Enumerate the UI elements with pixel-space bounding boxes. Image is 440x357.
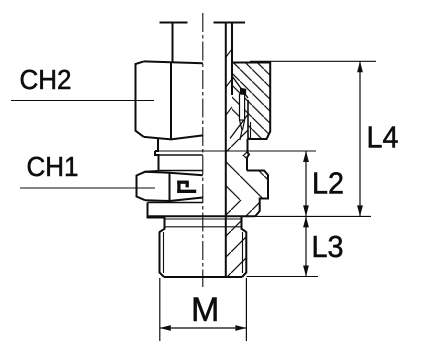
dimension M	[160, 278, 247, 341]
stud left	[160, 232, 165, 278]
tube left wall	[172, 23, 174, 63]
centerline	[202, 13, 204, 287]
tube break cap right	[214, 22, 246, 24]
tube outer wall right	[231, 23, 233, 96]
svg-text:CH1: CH1	[27, 151, 79, 182]
nut CH2 section right half	[232, 63, 270, 140]
L3 bottom extension	[247, 276, 319, 278]
leader CH2	[11, 100, 154, 102]
stud undercut neck right	[242, 217, 247, 233]
hex CH1 left	[137, 171, 203, 201]
neck right	[247, 139, 249, 171]
dimension L2	[303, 151, 344, 216]
svg-text:L4: L4	[367, 120, 399, 155]
tube break cap left	[160, 22, 188, 24]
stud thread root right	[242, 232, 244, 273]
svg-text:M: M	[191, 291, 219, 329]
svg-text:L2: L2	[312, 166, 344, 201]
body section right	[226, 139, 249, 156]
collar bottom / hex CH1 top face	[159, 170, 203, 172]
washer left	[148, 203, 166, 218]
dimension L4	[357, 61, 398, 216]
svg-text:CH2: CH2	[20, 64, 72, 95]
svg-text:L3: L3	[312, 229, 344, 264]
tube wall hatch	[226, 49, 232, 115]
nut cone edge	[232, 76, 248, 98]
stud top face and extension	[148, 215, 256, 217]
body nose cone	[230, 115, 248, 139]
stud right	[242, 232, 246, 278]
lip top line / L2 extension	[155, 150, 316, 152]
neck left	[155, 139, 159, 171]
stud section right	[226, 217, 247, 278]
stud thread root left	[163, 232, 165, 273]
lip bottom line	[155, 154, 203, 156]
L4 top extension	[250, 60, 376, 62]
hex CH1 right section outline	[247, 171, 268, 217]
nut CH2 hex left half	[136, 61, 203, 139]
washer top line	[148, 202, 203, 204]
nut thread line	[250, 122, 252, 139]
tube bore line right	[225, 23, 227, 277]
logo mark	[177, 181, 196, 193]
ferrule	[240, 94, 245, 120]
dimension L3	[303, 216, 343, 276]
undercut groove lines	[165, 218, 242, 220]
stud bottom face	[164, 276, 242, 278]
leader CH1	[20, 187, 155, 189]
stud undercut neck left	[160, 217, 165, 233]
